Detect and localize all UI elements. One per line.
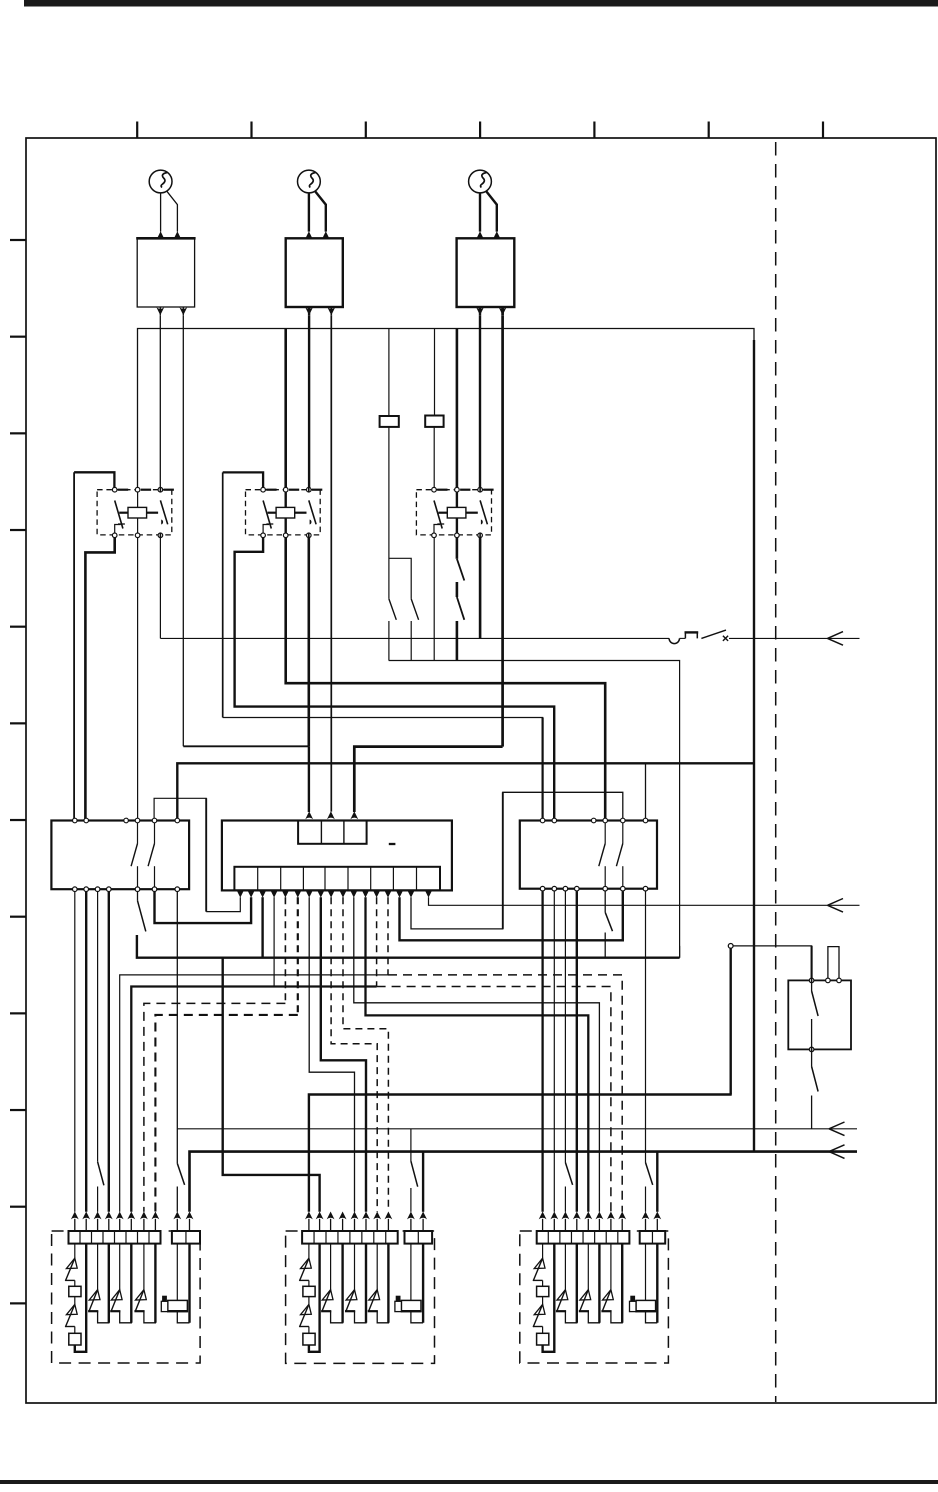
arrow - external line y1152 <box>829 1145 845 1152</box>
S5 internal contact <box>811 983 813 991</box>
wire - A1 supply drop a <box>308 746 310 812</box>
controller unit A1 (center) <box>222 821 452 891</box>
fuse F2 <box>425 416 443 427</box>
S5 lower contact <box>811 1052 813 1067</box>
B2 terminal strip <box>302 1231 398 1244</box>
wire - X1 b1 drop <box>74 892 76 1212</box>
wire - bus riser to K2 coil <box>284 329 287 489</box>
wire - collector line y660 <box>389 661 680 958</box>
sensor box B2 dashed enclosure <box>286 1231 435 1363</box>
contactor K1 <box>97 490 172 535</box>
B3 aux strip <box>640 1231 666 1244</box>
wire - mid strip2 blade drop from y1129 <box>410 1129 412 1161</box>
wire - A1 pin3 drop to rail <box>261 897 263 958</box>
wire - sensor line 1 dashed <box>388 975 622 1212</box>
wire - right strip2 b2 from y1152 <box>656 1152 658 1212</box>
wire - F1 parallel isolator pair <box>388 427 390 599</box>
wire - X1 b4 drop <box>108 892 110 1212</box>
terminal block X2 (right) <box>520 821 657 889</box>
switch inside X2 a <box>604 823 606 844</box>
wire - node link from collector <box>679 946 681 958</box>
A1 output terminal strip <box>234 867 440 891</box>
wire - K2 feed to right block <box>223 718 543 819</box>
left edge tick marks <box>10 239 26 241</box>
wire - aux feed horizontal <box>730 948 732 1094</box>
thermal sensors B1 <box>74 1244 76 1258</box>
pressure sensor B2 <box>410 1244 412 1301</box>
wire - K1 coil to terminal block <box>137 538 139 820</box>
S5 pi loop <box>828 947 839 981</box>
flow sensor B3 b <box>587 1244 589 1290</box>
pressure sensor B3 <box>645 1244 647 1301</box>
wire - K2 feed elbow <box>222 472 224 717</box>
wire - X1 b7 drop with blade <box>176 892 178 1164</box>
flow sensor B3 a <box>564 1244 566 1290</box>
wire - fuse F1 drop <box>388 329 390 417</box>
arrow - external line y1129 <box>829 1122 845 1129</box>
A1 power input cell block <box>298 821 367 844</box>
wire - dashed link to left box c7 <box>144 1003 286 1211</box>
fuse F1 <box>380 416 399 427</box>
flow sensor B1 a <box>97 1244 99 1290</box>
thermal sensors B3 <box>542 1244 544 1258</box>
X1 bottom terminals <box>73 887 78 892</box>
wire - K1 to breaker line <box>159 538 161 639</box>
wire - M1 to K1 contact <box>159 315 161 487</box>
wire - A1 pin17 to external <box>429 897 860 905</box>
wire - A1 pin15 elbow from X2 switch <box>400 892 623 941</box>
B1 aux strip <box>172 1231 200 1244</box>
A1 minus mark <box>389 843 396 845</box>
switch inside X2 b <box>622 823 624 844</box>
wire - signal line y1129 <box>177 1128 857 1130</box>
wire - jog to A1 pin1 <box>206 897 240 911</box>
wire - X2 switch drop to rail <box>604 892 606 913</box>
thermal sensors B2 <box>308 1244 310 1258</box>
flow sensor B3 c <box>610 1244 612 1290</box>
wire - sensor line 1 solid <box>120 975 388 1212</box>
contactor K2 <box>246 490 321 535</box>
breaker trip cross <box>723 636 728 641</box>
wire - X1 jog link <box>154 798 206 911</box>
switch inside X1 a <box>137 823 139 844</box>
S5 terminals <box>809 978 814 983</box>
wire - X1 switch rail y958 <box>137 892 139 901</box>
wire - A1 pin9 dashed stair <box>331 897 377 1212</box>
wire - K3 coil drop with isolator blades <box>456 538 459 559</box>
wire - M1 return drop <box>182 315 184 746</box>
wire - W1 return to Y1 pin1 <box>309 1095 732 1212</box>
pressure sensor B1 <box>176 1244 178 1301</box>
wire - M3 return drop <box>501 315 504 746</box>
wire - K2 contact drop to controller <box>307 538 310 747</box>
flow sensor B1 b <box>119 1244 121 1290</box>
wire - supply bus <box>138 329 755 1152</box>
top title bar <box>24 0 938 7</box>
top edge tick marks <box>136 122 138 139</box>
wire - signal line y1152 heavy <box>190 1152 858 1212</box>
bottom rule bar <box>0 1480 938 1484</box>
flow sensor B2 c <box>376 1244 378 1290</box>
wire - M3 return elbow to A1 <box>354 747 502 812</box>
contactor K3 <box>416 490 491 535</box>
flow sensor B1 c <box>143 1244 145 1290</box>
motor M3 <box>469 170 492 193</box>
wire - mid strip2 b2 from y1152 <box>422 1152 424 1212</box>
B3 arrows <box>539 1212 547 1220</box>
wire - dashed link to left box c8 <box>155 1015 297 1212</box>
wire - M1 return elbow to A1 <box>183 745 308 747</box>
flow sensor B2 a <box>330 1244 332 1290</box>
wire - A1 pin12 link <box>366 897 589 1212</box>
wire - fuse F2 drop <box>434 329 436 416</box>
wire - M3 to K3 contact <box>479 315 481 487</box>
B2 arrows <box>305 1212 313 1220</box>
aux switch unit S5 <box>788 980 851 1049</box>
X1 top terminals <box>73 818 78 823</box>
wire - X2 b2 drop <box>553 892 555 1212</box>
wire - X2 b1 drop <box>541 892 543 1212</box>
A1 output arrows <box>236 890 244 898</box>
wire - A1 pin10 dashed stair <box>343 897 388 1212</box>
sensor box B3 dashed enclosure <box>520 1231 669 1363</box>
motor M2 <box>298 170 321 193</box>
B2 aux strip <box>405 1231 433 1244</box>
wire - A1 pin7 stair to Y1 <box>309 897 354 1212</box>
wire - X2 b3 drop with blade <box>564 892 566 1163</box>
wire - A1 pin4 drop <box>273 897 275 986</box>
wire - A1 pin8 stair to Y1 <box>321 897 366 1212</box>
arrow - external feed top <box>828 632 844 639</box>
B1 arrows <box>71 1212 79 1220</box>
wire - K1 feed elbow <box>73 472 75 820</box>
wire - rail branch to X2 <box>645 763 647 818</box>
wire - X2 sensor feed link <box>411 792 623 929</box>
wire - X2 b7 drop with blade <box>645 892 647 1163</box>
B1 terminal strip <box>69 1231 161 1244</box>
X2 top terminals <box>540 818 545 823</box>
wire - A1 pin13 dashed drop <box>376 897 378 986</box>
B3 terminal strip <box>537 1231 630 1244</box>
wire - M2 to K2 contact <box>308 315 310 487</box>
wire - M2 return long drop to controller <box>330 315 332 811</box>
wire - rail branch down y1175 <box>223 958 320 1212</box>
wire - K2 coil elbow to right block <box>286 538 606 818</box>
terminal block X1 (left) <box>51 821 189 890</box>
wire - A1 pin6 dashed drop <box>297 897 299 1015</box>
arrow - external line mid <box>828 899 844 906</box>
wire - A1 pin5 dashed drop <box>284 897 286 1003</box>
flow sensor B2 b <box>354 1244 356 1290</box>
circuit breaker Q1 line <box>160 637 669 639</box>
wire - sensor line 2 solid <box>131 987 376 1212</box>
wire - K2 bottom elbow <box>235 538 555 818</box>
wire - A1 pin2 elbow from X1 <box>155 892 252 924</box>
wire - bus riser to K3 coil <box>456 329 459 489</box>
wire - A1 pin11 link to X2 switch b6 <box>354 897 600 1212</box>
A1 supply arrows <box>305 811 313 819</box>
wire - K3 left drop <box>433 427 435 488</box>
switch inside X1 b <box>154 823 156 844</box>
sensor box B1 dashed enclosure <box>52 1231 201 1363</box>
wire - X2 b4 drop <box>576 892 578 1212</box>
motor M1 <box>149 170 172 193</box>
wire - X1 pump feed rail <box>177 763 754 818</box>
wire - K1 bottom elbow <box>85 538 114 820</box>
wire - sensor line 2 dashed <box>377 987 611 1212</box>
field separator dashed line <box>775 142 777 1402</box>
wire - X1 b3 drop with blade <box>97 892 99 1162</box>
wire - K3 contact drop <box>479 538 482 639</box>
wire - A1 pin14 dashed drop <box>387 897 389 975</box>
wire - X1 b2 drop <box>85 892 87 1212</box>
X2 bottom terminals <box>540 886 545 891</box>
